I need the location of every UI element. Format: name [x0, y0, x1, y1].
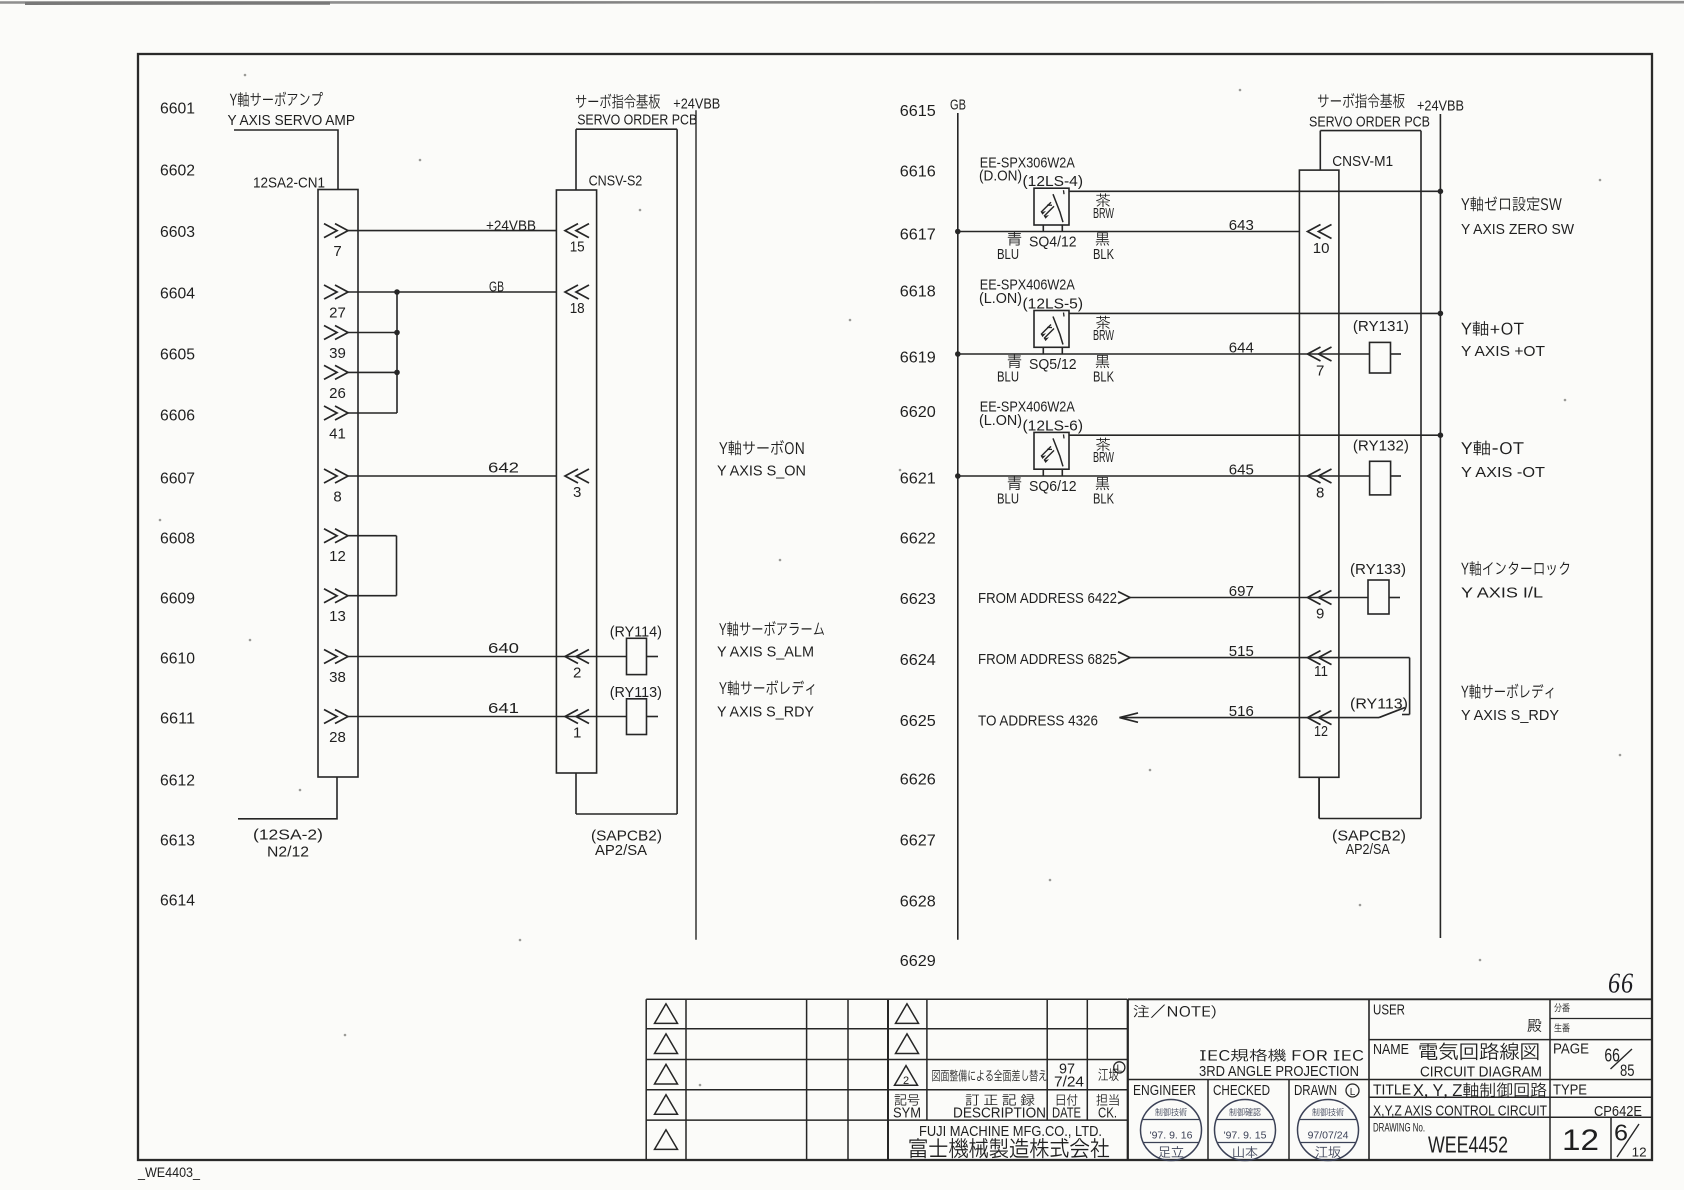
annotation Y axis +OT [1461, 321, 1545, 360]
connector CNSV-S2 body [556, 190, 596, 773]
from address 6825 source chevron [1118, 652, 1130, 664]
svg-text:85: 85 [1620, 1061, 1635, 1080]
svg-text:6624: 6624 [900, 652, 936, 669]
sheet fraction 6/12 [1614, 1120, 1647, 1160]
svg-text:(D.ON): (D.ON) [979, 168, 1022, 185]
pin 12 arrow [324, 529, 348, 543]
line number 6627 [900, 833, 936, 850]
wire number 515 [1229, 643, 1254, 660]
wire number 644 [1229, 340, 1254, 357]
wire label 642 [488, 460, 519, 477]
svg-text:CNSV-M1: CNSV-M1 [1332, 153, 1393, 170]
svg-text:26: 26 [329, 385, 346, 402]
junction node on GB rail [955, 473, 961, 479]
svg-text:6615: 6615 [900, 103, 936, 120]
pin 11 label [1314, 663, 1328, 680]
line number 6611 [160, 711, 195, 728]
revision triangle mid row 2 [896, 1034, 919, 1054]
line number 6616 [900, 164, 936, 181]
relay coil RY114 [627, 638, 647, 674]
svg-text:6607: 6607 [160, 471, 195, 488]
pin 18 label [570, 300, 585, 317]
pin 15 label [570, 239, 585, 256]
revision triangle sym 2 [895, 1066, 918, 1087]
line number 6612 [160, 773, 195, 790]
drawn header with circled L [1294, 1082, 1359, 1099]
bunban seiban cells [1554, 1003, 1569, 1032]
svg-text:12: 12 [1632, 1145, 1647, 1160]
line number 6624 [900, 652, 936, 669]
wire label 641 [488, 700, 519, 717]
pin 38 label [329, 669, 346, 686]
svg-text:SERVO ORDER PCB: SERVO ORDER PCB [1309, 113, 1430, 130]
annotation Y axis servo on [717, 440, 806, 479]
relay coil RY132 label [1353, 438, 1409, 455]
from address 6422 source chevron [1118, 592, 1130, 604]
pin 3 label [573, 484, 581, 501]
revision header SYM cell [893, 1094, 921, 1121]
svg-text:10: 10 [1313, 240, 1330, 257]
sheet code _WE4403_ [137, 1164, 200, 1180]
wire color labels 12LS-6 [997, 438, 1115, 508]
svg-text:6617: 6617 [900, 227, 936, 244]
revision row 3 CK name Esaka [1098, 1068, 1118, 1081]
svg-text:FROM ADDRESS 6422: FROM ADDRESS 6422 [978, 590, 1117, 607]
wire 642 line 6607 [348, 475, 556, 477]
svg-text:DESCRIPTION: DESCRIPTION [953, 1104, 1046, 1121]
svg-text:CNSV-S2: CNSV-S2 [589, 173, 643, 190]
line number 6618 [900, 284, 936, 301]
title cell [1373, 1082, 1547, 1120]
svg-text:7: 7 [1316, 363, 1324, 380]
limit switch 12LS-4 symbol [1034, 188, 1069, 231]
annotation Y axis interlock [1461, 561, 1569, 601]
+24VBB power rail [1439, 114, 1441, 938]
svg-text:13: 13 [329, 608, 346, 625]
svg-text:BLK: BLK [1093, 490, 1114, 507]
center divider line [695, 110, 697, 940]
line number 6608 [160, 531, 195, 548]
svg-text:8: 8 [333, 489, 341, 506]
svg-text:Y AXIS S_RDY: Y AXIS S_RDY [717, 704, 814, 721]
svg-text:7: 7 [333, 243, 341, 260]
circled L mark revision row [1114, 1062, 1125, 1075]
line number 6614 [160, 893, 195, 910]
pin 13 arrow [324, 589, 348, 603]
pin 10 label [1313, 240, 1330, 257]
svg-text:38: 38 [329, 669, 346, 686]
relay coil RY132 [1370, 461, 1391, 495]
svg-text:1: 1 [573, 725, 581, 742]
wire color labels 12LS-5 [997, 316, 1115, 386]
svg-text:641: 641 [488, 700, 519, 717]
svg-text:FROM ADDRESS 6825: FROM ADDRESS 6825 [978, 651, 1117, 668]
line number 6623 [900, 591, 936, 608]
svg-text:BLU: BLU [997, 490, 1019, 507]
pin 28 label [329, 729, 346, 746]
svg-text:3: 3 [573, 484, 581, 501]
wire 12LS-5 BRW to +24VBB rail [1069, 312, 1440, 314]
line number 6621 [900, 471, 936, 488]
svg-text:_WE4403_: _WE4403_ [137, 1164, 200, 1180]
junction node pin 26 [394, 370, 400, 376]
revision header DATE cell [1052, 1094, 1081, 1121]
svg-text:GB: GB [950, 97, 966, 114]
relay coil RY131 label [1353, 318, 1409, 335]
wire CNSV-M1 pin9 to relay RY133 [1299, 597, 1368, 599]
svg-text:BRW: BRW [1093, 327, 1115, 344]
wire label 640 [488, 640, 519, 657]
12SA2 connector bottom exit wire [238, 777, 337, 819]
pin 39 label [329, 345, 346, 362]
wire GB line 6604 [348, 291, 556, 293]
wire 645 GB rail to CNSV-M1 pin 8 [958, 475, 1300, 477]
wire 515 extension to RY113 contact [1299, 657, 1409, 659]
line number 6610 [160, 651, 195, 668]
svg-text:Y AXIS SERVO AMP: Y AXIS SERVO AMP [228, 112, 356, 129]
handwritten page number 66 [1608, 969, 1634, 1000]
line number 6617 [900, 227, 936, 244]
svg-text:27: 27 [329, 305, 346, 322]
GB jumper bus vertical [396, 292, 398, 413]
svg-text:6623: 6623 [900, 591, 936, 608]
relay coil RY114 label [610, 624, 662, 641]
drawn stamp [1298, 1100, 1359, 1161]
line number 6602 [160, 163, 195, 180]
svg-text:BLK: BLK [1093, 246, 1114, 263]
revision header DESCRIPTION cell [953, 1094, 1046, 1121]
svg-text:6603: 6603 [160, 224, 195, 241]
wire 12LS-4 BRW to +24VBB rail [1069, 190, 1440, 192]
pin 2 arrow [565, 650, 589, 664]
svg-text:6613: 6613 [160, 833, 195, 850]
junction node on GB rail [955, 351, 961, 357]
relay coil RY113 label (left) [610, 684, 662, 701]
line number 6622 [900, 531, 936, 548]
CNSV-M1 bottom exit wire [1318, 777, 1320, 818]
connector 12SA2-CN1 label [253, 175, 325, 192]
junction node on GB rail [955, 229, 961, 235]
wire CNSV-M1 pin8 to relay RY132 [1299, 475, 1369, 477]
svg-text:6606: 6606 [160, 408, 195, 425]
pin 8 arrow [324, 469, 348, 483]
svg-text:39: 39 [329, 345, 346, 362]
wire number 643 [1229, 217, 1254, 234]
svg-text:2: 2 [903, 1075, 909, 1087]
pin 9 label [1316, 606, 1324, 623]
pin 1 arrow [565, 710, 589, 724]
svg-text:644: 644 [1229, 340, 1254, 357]
cable label (12SA-2) N2/12 [253, 827, 323, 861]
svg-text:CIRCUIT DIAGRAM: CIRCUIT DIAGRAM [1420, 1064, 1542, 1081]
Y axis servo amp header label [228, 92, 356, 129]
wire +24VBB line 6603 [348, 230, 556, 232]
pin 13 jumper stub [348, 595, 397, 597]
from address 6825 label [978, 651, 1117, 668]
servo order PCB outline (left) [576, 129, 677, 814]
line number 6620 [900, 404, 936, 421]
svg-text:41: 41 [329, 426, 346, 443]
svg-text:6626: 6626 [900, 772, 936, 789]
junction node on +24VBB rail [1438, 432, 1444, 438]
svg-text:12: 12 [329, 548, 346, 565]
pin 7 arrow [1308, 347, 1332, 361]
svg-text:6618: 6618 [900, 284, 936, 301]
svg-text:PAGE: PAGE [1553, 1041, 1589, 1058]
name cell circuit diagram [1373, 1041, 1542, 1081]
wire 643 GB rail to CNSV-M1 pin 10 [958, 231, 1300, 233]
svg-text:3RD ANGLE PROJECTION: 3RD ANGLE PROJECTION [1199, 1063, 1359, 1080]
pin 41 stub wire [348, 412, 397, 414]
svg-text:(RY133): (RY133) [1350, 561, 1406, 578]
svg-text:+24VBB: +24VBB [486, 218, 536, 235]
revision table left grid [646, 999, 1127, 1160]
svg-text:12: 12 [1562, 1124, 1599, 1157]
checked header [1213, 1082, 1270, 1099]
svg-text:6616: 6616 [900, 164, 936, 181]
svg-text:BLU: BLU [997, 368, 1019, 385]
limit switch 12LS-6 symbol [1034, 432, 1069, 476]
user cell [1373, 1002, 1541, 1033]
svg-text:+24VBB: +24VBB [673, 96, 720, 113]
revision row 3 date [1054, 1061, 1084, 1091]
junction node on +24VBB rail [1438, 189, 1444, 195]
svg-text:AP2/SA: AP2/SA [1346, 841, 1390, 858]
svg-text:18: 18 [570, 300, 585, 317]
engineer stamp [1141, 1100, 1202, 1161]
pin 12 label [329, 548, 346, 565]
svg-text:TYPE: TYPE [1553, 1082, 1587, 1099]
svg-text:(L.ON): (L.ON) [979, 290, 1022, 307]
drawing number cell [1373, 1121, 1508, 1158]
line number 6625 [900, 713, 936, 730]
wire 641 line 6611 [348, 716, 627, 718]
svg-text:6: 6 [1614, 1120, 1628, 1146]
pin 27 arrow [324, 285, 348, 299]
svg-text:2: 2 [573, 665, 581, 682]
contact RY113 (normally open) [1299, 708, 1409, 718]
page cell 66/85 [1553, 1041, 1635, 1080]
wire 640 line 6610 [348, 656, 627, 658]
svg-text:6601: 6601 [160, 101, 195, 118]
svg-text:642: 642 [488, 460, 519, 477]
connector CNSV-S2 label [589, 173, 643, 190]
svg-text:Y AXIS -OT: Y AXIS -OT [1461, 464, 1545, 481]
svg-text:15: 15 [570, 239, 585, 256]
pin 12 label [1314, 723, 1328, 740]
svg-text:X,Y,Z AXIS CONTROL CIRCUIT: X,Y,Z AXIS CONTROL CIRCUIT [1373, 1103, 1547, 1120]
svg-text:7/24: 7/24 [1054, 1074, 1084, 1091]
line number 6607 [160, 471, 195, 488]
company name Fuji Machine [909, 1123, 1109, 1158]
connector CNSV-M1 label [1332, 153, 1393, 170]
relay coil RY131 [1370, 342, 1391, 373]
svg-text:SQ6/12: SQ6/12 [1029, 478, 1077, 495]
pin 12 arrow [1308, 711, 1332, 725]
limit switch 12LS-6 labels [979, 399, 1083, 435]
pin 8 label [1316, 485, 1324, 502]
svg-text:BRW: BRW [1093, 449, 1115, 466]
line number 6609 [160, 591, 195, 608]
svg-text:6610: 6610 [160, 651, 195, 668]
revision row 3 description [932, 1070, 1046, 1082]
svg-text:6612: 6612 [160, 773, 195, 790]
junction node on +24VBB rail [1438, 311, 1444, 317]
engineer header [1133, 1082, 1196, 1099]
svg-text:6608: 6608 [160, 531, 195, 548]
pin 11 arrow [1308, 651, 1332, 665]
annotation Y axis servo ready (right) [1461, 684, 1559, 724]
sheet number 12 [1562, 1124, 1599, 1157]
svg-text:L: L [1117, 1064, 1123, 1075]
relay RY113 right stub wire [647, 716, 659, 718]
line number 6629 [900, 953, 936, 970]
svg-text:(12SA-2): (12SA-2) [253, 827, 323, 844]
relay RY114 right stub wire [647, 656, 659, 658]
revision triangle left col row 1 [655, 1004, 678, 1024]
line number 6603 [160, 224, 195, 241]
servo order PCB label (left) [576, 94, 697, 129]
svg-text:FUJI MACHINE MFG.CO., LTD.: FUJI MACHINE MFG.CO., LTD. [919, 1123, 1102, 1140]
svg-text:CK.: CK. [1098, 1104, 1117, 1121]
servo order PCB outline (right) [1319, 131, 1421, 819]
GB net label [950, 97, 966, 114]
svg-text:SQ4/12: SQ4/12 [1029, 233, 1077, 250]
svg-text:DRAWN: DRAWN [1294, 1082, 1337, 1099]
revision triangle left col row 5 [655, 1130, 678, 1150]
svg-text:6621: 6621 [900, 471, 936, 488]
line number 6626 [900, 772, 936, 789]
svg-text:6609: 6609 [160, 591, 195, 608]
svg-text:Y AXIS ZERO SW: Y AXIS ZERO SW [1461, 221, 1575, 238]
revision header CK cell [1096, 1094, 1118, 1121]
wire 516 line 6625 [1120, 717, 1300, 719]
svg-text:6625: 6625 [900, 713, 936, 730]
connector CNSV-M1 body [1299, 170, 1339, 777]
svg-text:SYM: SYM [893, 1104, 921, 1121]
limit switch 12LS-5 labels [979, 277, 1083, 313]
svg-text:8: 8 [1316, 485, 1324, 502]
+24VBB label top left half [673, 96, 720, 113]
svg-text:516: 516 [1229, 703, 1254, 720]
from address 6422 label [978, 590, 1117, 607]
svg-text:TO ADDRESS 4326: TO ADDRESS 4326 [978, 712, 1098, 729]
revision triangle left col row 4 [655, 1095, 678, 1115]
pin 13 label [329, 608, 346, 625]
svg-text:L: L [1350, 1087, 1356, 1098]
revision triangle mid row 1 [896, 1004, 919, 1024]
svg-text:(RY132): (RY132) [1353, 438, 1409, 455]
svg-text:CP642E: CP642E [1594, 1103, 1642, 1120]
svg-text:6619: 6619 [900, 350, 936, 367]
wire number 645 [1229, 462, 1254, 479]
svg-text:+24VBB: +24VBB [1417, 98, 1464, 115]
svg-text:6622: 6622 [900, 531, 936, 548]
switch tag SQ5/12 [1029, 356, 1077, 373]
svg-text:NAME: NAME [1373, 1041, 1409, 1058]
svg-text:6628: 6628 [900, 894, 936, 911]
svg-text:BLK: BLK [1093, 368, 1114, 385]
pin 2 label [573, 665, 581, 682]
to address 4326 arrowhead [1120, 713, 1139, 722]
type cell CP642E [1553, 1082, 1642, 1121]
svg-text:Y AXIS S_ON: Y AXIS S_ON [717, 463, 806, 480]
pin 12 jumper stub [348, 535, 397, 537]
servo amp header bracket wire [234, 130, 338, 190]
wire CNSV-M1 pin7 to relay RY131 [1299, 353, 1369, 355]
SAPCB2 bottom exit note (left) [591, 828, 662, 860]
junction node at pin 27 wire [394, 289, 400, 295]
pin 38 arrow [324, 650, 348, 664]
relay coil RY133 [1368, 580, 1389, 614]
wire 12LS-6 BRW to +24VBB rail [1069, 434, 1440, 436]
pin 39 arrow [324, 326, 348, 340]
checked stamp [1215, 1100, 1276, 1161]
line number 6615 [900, 103, 936, 120]
pin 26 stub wire [348, 371, 397, 373]
IEC projection note [1199, 1049, 1363, 1080]
svg-text:6620: 6620 [900, 404, 936, 421]
svg-text:9: 9 [1316, 606, 1324, 623]
svg-text:66: 66 [1608, 969, 1634, 1000]
annotation Y axis zero SW [1461, 196, 1575, 238]
pin 27 label [329, 305, 346, 322]
scan noise dots [159, 74, 1622, 1087]
svg-text:697: 697 [1229, 583, 1254, 600]
svg-text:DATE: DATE [1052, 1104, 1081, 1121]
GB power rail [957, 113, 959, 940]
servo order PCB label (right) [1309, 93, 1430, 130]
svg-text:USER: USER [1373, 1002, 1405, 1019]
svg-text:Y AXIS S_ALM: Y AXIS S_ALM [717, 644, 814, 661]
pin 39 stub wire [348, 332, 397, 334]
relay RY133 right stub [1389, 597, 1400, 599]
line number 6628 [900, 894, 936, 911]
svg-text:Y AXIS I/L: Y AXIS I/L [1461, 585, 1543, 602]
svg-text:(L.ON): (L.ON) [979, 412, 1022, 429]
svg-text:BRW: BRW [1093, 205, 1115, 222]
svg-text:'97. 9. 16: '97. 9. 16 [1150, 1130, 1193, 1142]
svg-text:6605: 6605 [160, 347, 195, 364]
revision triangle left col row 3 [655, 1064, 678, 1084]
svg-text:6614: 6614 [160, 893, 195, 910]
switch tag SQ6/12 [1029, 478, 1077, 495]
switch tag SQ4/12 [1029, 233, 1077, 250]
svg-text:6604: 6604 [160, 286, 195, 303]
svg-text:12SA2-CN1: 12SA2-CN1 [253, 175, 325, 192]
line number 6606 [160, 408, 195, 425]
svg-text:640: 640 [488, 640, 519, 657]
svg-text:643: 643 [1229, 217, 1254, 234]
revision triangle left col row 2 [655, 1034, 678, 1054]
title block grid [1128, 999, 1652, 1160]
pin 8 arrow [1308, 469, 1332, 483]
pin 8 label [333, 489, 341, 506]
svg-text:(RY131): (RY131) [1353, 318, 1409, 335]
note label [1134, 1005, 1216, 1019]
pin 10 arrow [1308, 225, 1332, 239]
pin 28 arrow [324, 710, 348, 724]
svg-text:11: 11 [1314, 663, 1328, 680]
wire label +24VBB [486, 218, 536, 235]
svg-text:6627: 6627 [900, 833, 936, 850]
wire 644 GB rail to CNSV-M1 pin 7 [958, 353, 1300, 355]
line number 6601 [160, 101, 195, 118]
wire vertical drop to RY113 contact [1409, 658, 1411, 715]
svg-text:'97. 9. 15: '97. 9. 15 [1224, 1130, 1267, 1142]
jumper 12-13 vertical [396, 536, 398, 596]
limit switch 12LS-4 labels [979, 154, 1083, 190]
